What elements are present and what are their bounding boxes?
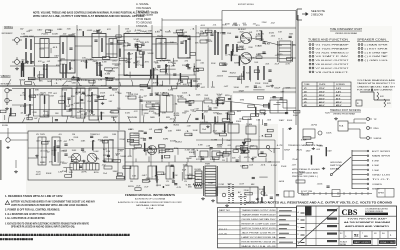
wire — [274, 140, 276, 207]
capacitor — [149, 137, 152, 138]
grid resistor R2 — [25, 52, 26, 63]
svg-text:12AX7: 12AX7 — [306, 149, 311, 152]
component value label — [68, 157, 75, 159]
legend line 7 — [136, 25, 148, 28]
resistor — [173, 172, 174, 178]
wire — [20, 79, 21, 86]
ground symbol — [201, 197, 205, 200]
svg-text:V7 6L6GC OUTPUT: V7 6L6GC OUTPUT — [316, 68, 350, 70]
svg-text:.001: .001 — [208, 157, 212, 159]
svg-text:2.2M: 2.2M — [117, 150, 123, 152]
component value label — [152, 176, 157, 178]
wire — [273, 104, 280, 106]
svg-text:500pF: 500pF — [137, 50, 143, 52]
pointer note line 2 — [311, 15, 324, 17]
wire — [47, 111, 49, 117]
svg-text:CABLE: CABLE — [301, 194, 310, 197]
AC receptacle box — [217, 187, 258, 203]
speaker end box — [377, 189, 394, 198]
osc resistor R42 — [104, 166, 112, 169]
component value label — [135, 30, 142, 32]
svg-text:440 V: 440 V — [319, 101, 325, 104]
resistor — [163, 186, 164, 188]
wire — [224, 101, 270, 106]
svg-text:V4 12AT7 P. INV.: V4 12AT7 P. INV. — [316, 55, 350, 58]
wire — [259, 176, 267, 178]
note 6 line 1 — [5, 221, 90, 225]
component value label — [135, 60, 140, 63]
svg-text:470: 470 — [70, 162, 74, 164]
wire — [168, 162, 170, 166]
resistor — [105, 68, 113, 71]
component value label — [217, 94, 224, 96]
resistor — [116, 35, 121, 38]
svg-text:A DIVISION OF COLUMBIA: A DIVISION OF COLUMBIA — [135, 198, 166, 201]
component value label — [242, 23, 246, 25]
capacitor — [149, 147, 152, 148]
component value label — [292, 159, 299, 161]
svg-text:7025: 7025 — [39, 48, 44, 50]
impedance label GND LUG — [372, 175, 391, 177]
svg-text:470: 470 — [234, 55, 238, 57]
svg-text:2.2M: 2.2M — [158, 43, 162, 45]
svg-text:SPKR: SPKR — [378, 193, 385, 195]
component value label — [133, 39, 140, 41]
component value label — [82, 162, 88, 164]
svg-text:.01: .01 — [169, 119, 174, 121]
resistor — [160, 69, 166, 72]
voltage table header — [304, 83, 345, 86]
component value label — [128, 186, 134, 188]
component value label — [173, 115, 180, 117]
svg-text:SCREEN: SCREEN — [336, 84, 345, 86]
svg-text:7025: 7025 — [36, 171, 41, 173]
svg-text:820: 820 — [175, 141, 181, 143]
svg-text:.02: .02 — [249, 165, 254, 167]
component value label — [36, 139, 40, 142]
label 25uF below bus — [75, 93, 81, 95]
component value label — [299, 172, 305, 174]
label R1 68K — [24, 36, 30, 38]
svg-text:230 V: 230 V — [319, 98, 325, 100]
wire — [162, 68, 175, 70]
component value label — [260, 165, 266, 167]
wire — [221, 138, 223, 144]
wire — [162, 81, 164, 86]
component value label — [118, 93, 122, 95]
resistor — [245, 192, 252, 195]
wire — [33, 88, 35, 116]
svg-text:470K: 470K — [90, 86, 96, 88]
wire — [173, 58, 175, 66]
label V2 row1 — [112, 68, 115, 70]
component value label — [244, 54, 250, 56]
svg-text:250K: 250K — [232, 158, 236, 160]
svg-text:MADE IN U.S.A. 45-09: MADE IN U.S.A. 45-09 — [242, 245, 277, 248]
wire — [187, 80, 188, 86]
wire — [258, 53, 267, 55]
capacitor — [107, 155, 110, 156]
tremolo jack tip — [367, 118, 378, 121]
title block frame — [297, 206, 397, 246]
resistor — [306, 142, 313, 145]
component value label — [115, 92, 120, 94]
svg-text:500pF: 500pF — [293, 115, 299, 117]
component value label — [174, 175, 178, 177]
tube V2A box — [156, 39, 166, 59]
label normal instrument — [2, 33, 14, 35]
component value label — [107, 29, 112, 31]
ground — [322, 167, 325, 170]
svg-text:40 V: 40 V — [336, 94, 341, 97]
svg-text:40V: 40V — [380, 96, 384, 98]
label 100K plate — [52, 34, 59, 36]
bias box 1 — [200, 122, 211, 133]
component value label — [86, 80, 90, 82]
svg-text:330K: 330K — [227, 184, 232, 186]
svg-text:.003: .003 — [94, 163, 98, 165]
component value label — [100, 113, 104, 115]
capacitor — [252, 177, 255, 178]
svg-text:NO: NO — [374, 233, 377, 235]
component value label — [195, 150, 199, 152]
component value label — [239, 76, 245, 78]
svg-text:T: T — [362, 233, 364, 235]
svg-text:455 V: 455 V — [336, 101, 342, 104]
wire — [177, 149, 179, 155]
component value label — [90, 141, 96, 143]
component value label — [73, 137, 79, 139]
component value label — [141, 110, 147, 112]
capacitor — [69, 109, 72, 110]
svg-text:2 BELOW: 2 BELOW — [311, 15, 324, 17]
parts table frame — [218, 208, 297, 248]
component value label — [172, 63, 176, 65]
svg-text:.003: .003 — [237, 42, 241, 44]
svg-text:100K: 100K — [93, 151, 99, 153]
wire — [37, 118, 40, 123]
label 1M row1 — [42, 62, 45, 64]
component value label — [237, 79, 244, 81]
svg-text:3.3M: 3.3M — [90, 115, 95, 117]
component value label — [185, 175, 189, 177]
component value label — [57, 29, 63, 31]
wire — [132, 149, 134, 167]
svg-text:2.2M: 2.2M — [206, 146, 210, 148]
component value label — [185, 149, 191, 151]
svg-text:LAMP 6V 51862 FUSE 2A: LAMP 6V 51862 FUSE 2A — [242, 236, 277, 239]
label 250K below bus — [100, 93, 106, 95]
component value label — [66, 111, 71, 113]
stage box V4B — [160, 95, 173, 112]
resistor — [150, 69, 151, 78]
component value label — [21, 34, 25, 36]
svg-text:2 OHM: 2 OHM — [372, 170, 379, 172]
label 1500 below bus — [62, 90, 67, 92]
tube chart subtitle — [335, 32, 357, 35]
svg-text:220K: 220K — [262, 22, 268, 24]
component value label — [277, 45, 282, 47]
resistor — [224, 123, 225, 134]
wire — [169, 73, 171, 85]
svg-text:.02: .02 — [30, 79, 34, 81]
svg-text:.001: .001 — [91, 95, 96, 97]
svg-text:.01: .01 — [52, 47, 58, 49]
svg-text:AMPLIFIER AND VIBRATO: AMPLIFIER AND VIBRATO — [345, 225, 389, 228]
capacitor C32 — [187, 101, 192, 105]
component value label — [56, 80, 63, 82]
component value label — [184, 111, 188, 113]
component value label — [87, 110, 93, 112]
resistor — [161, 155, 162, 159]
component value label — [125, 74, 129, 76]
svg-text:( ) EXT SPKR: ( ) EXT SPKR — [365, 48, 389, 50]
svg-text:PO-12: PO-12 — [219, 229, 228, 231]
component value label — [34, 118, 38, 120]
capacitor — [171, 165, 174, 166]
component value label — [183, 165, 189, 167]
svg-text:.005: .005 — [244, 54, 250, 56]
stage box V1C — [109, 39, 117, 58]
component value label — [233, 23, 237, 25]
component value label — [66, 81, 73, 83]
diode D2 — [240, 150, 248, 153]
capacitor — [55, 119, 58, 120]
svg-text:.047: .047 — [239, 183, 244, 185]
speaker row 3 — [358, 51, 388, 54]
svg-text:25: 25 — [70, 68, 73, 70]
component value label — [204, 111, 209, 113]
wire — [174, 95, 176, 123]
component value label — [155, 95, 160, 97]
resistor — [227, 113, 228, 120]
resistor — [65, 175, 72, 178]
wire — [62, 81, 66, 86]
component value label — [267, 162, 271, 164]
component value label — [39, 81, 44, 83]
svg-text:2.2M: 2.2M — [43, 115, 50, 117]
osc stage box 1 — [38, 137, 46, 165]
component value label — [33, 95, 39, 97]
svg-text:.005: .005 — [86, 30, 92, 32]
component value label — [155, 32, 161, 34]
svg-text:3.3M: 3.3M — [173, 115, 180, 117]
capacitor C31 — [138, 97, 143, 101]
component value label — [114, 65, 119, 67]
resistor — [196, 68, 203, 71]
capacitor — [96, 31, 99, 32]
svg-text:12AX7: 12AX7 — [245, 85, 249, 88]
resistor — [119, 48, 120, 57]
component value label — [240, 99, 245, 101]
svg-text:SYSTEMS DIVISION: SYSTEMS DIVISION — [365, 211, 384, 213]
svg-text:70: 70 — [166, 181, 169, 183]
svg-text:7025: 7025 — [325, 113, 330, 115]
legend line 6 — [136, 22, 152, 24]
svg-text:.1: .1 — [190, 28, 195, 30]
component value label — [120, 156, 128, 158]
component value label — [176, 130, 182, 132]
wire — [50, 79, 53, 86]
component value label — [317, 184, 323, 186]
component value label — [21, 58, 25, 61]
component value label — [39, 94, 45, 96]
wire — [135, 158, 137, 162]
capacitor — [81, 149, 84, 150]
svg-text:250K: 250K — [204, 95, 208, 97]
speaker run wire — [298, 190, 372, 197]
component value label — [135, 41, 140, 43]
component value label — [186, 184, 192, 186]
svg-text:250K: 250K — [66, 81, 73, 83]
svg-text:.01: .01 — [25, 115, 30, 117]
svg-text:TUBE COMPLEMENT CHART: TUBE COMPLEMENT CHART — [330, 28, 362, 31]
wire — [239, 155, 241, 162]
svg-text:220K: 220K — [192, 111, 197, 113]
svg-text:500pF: 500pF — [208, 182, 214, 184]
resistor — [116, 176, 124, 179]
wire — [76, 25, 78, 95]
component value label — [45, 141, 51, 143]
wire — [187, 158, 189, 162]
wire — [217, 116, 219, 123]
label 470K row1 — [168, 62, 174, 64]
component value label — [166, 95, 171, 97]
input jack J2 — [12, 57, 22, 64]
bottom row dark bar 2 — [379, 240, 396, 244]
svg-text:220K: 220K — [134, 94, 139, 96]
component value label — [192, 111, 197, 113]
svg-text:.1: .1 — [207, 106, 210, 108]
component value label — [239, 146, 245, 148]
component value label — [67, 28, 72, 30]
resistor — [113, 160, 121, 163]
component value label — [86, 30, 92, 32]
svg-text:SEE NOTE: SEE NOTE — [311, 11, 326, 13]
component value label — [202, 32, 208, 34]
component value label — [125, 33, 130, 35]
resistor — [214, 117, 215, 124]
svg-text:7025: 7025 — [217, 95, 221, 97]
wire — [7, 79, 11, 86]
svg-text:.005: .005 — [317, 184, 323, 186]
component value label — [115, 153, 121, 155]
capacitor — [210, 148, 213, 149]
component value label — [166, 149, 171, 151]
component value label — [94, 163, 98, 165]
wire — [117, 131, 119, 175]
wire — [276, 102, 287, 104]
capacitor — [77, 79, 80, 80]
component value label — [253, 157, 257, 159]
svg-text:.02: .02 — [152, 113, 156, 115]
component value label — [227, 184, 232, 186]
svg-text:220K: 220K — [259, 39, 265, 41]
svg-text:7025: 7025 — [125, 96, 131, 98]
svg-text:SWITCH TOGGLE DPST 41219: SWITCH TOGGLE DPST 41219 — [242, 228, 277, 230]
component value label — [318, 146, 323, 148]
resistor — [294, 110, 300, 113]
component value label — [248, 119, 254, 121]
resistor — [163, 93, 169, 96]
svg-text:1W: 1W — [62, 171, 67, 173]
component value label — [155, 114, 160, 116]
svg-text:220K: 220K — [41, 157, 48, 159]
wire — [141, 104, 143, 115]
voltage row V2 — [304, 91, 341, 94]
wire — [158, 117, 161, 122]
cathode resistor pair D — [96, 62, 100, 76]
svg-text:BASS: BASS — [112, 89, 118, 92]
capacitor — [201, 158, 204, 159]
component value label — [37, 29, 42, 32]
component value label — [255, 45, 261, 47]
wire — [71, 169, 73, 177]
svg-text:.01: .01 — [260, 165, 266, 167]
component value label — [252, 24, 256, 26]
component value label — [208, 157, 212, 159]
component value label — [134, 111, 139, 113]
component value label — [86, 59, 93, 61]
revision area rows — [297, 206, 340, 246]
note 4 — [5, 212, 55, 216]
component value label — [165, 185, 170, 187]
wire — [186, 100, 204, 102]
label 6L6GC upper — [238, 29, 247, 31]
wire — [106, 43, 124, 45]
svg-text:V6 6L6GC OUTPUT: V6 6L6GC OUTPUT — [316, 64, 350, 66]
wire — [66, 168, 68, 173]
component value label — [192, 80, 197, 82]
component value label — [244, 157, 250, 159]
wire — [195, 25, 197, 90]
resistor — [159, 106, 160, 116]
wire — [132, 80, 133, 86]
svg-text:820: 820 — [174, 125, 180, 127]
svg-text:12AX7: 12AX7 — [135, 60, 140, 63]
legend line 3 — [136, 11, 150, 14]
svg-text:.1: .1 — [172, 103, 178, 105]
component value label — [84, 113, 88, 115]
component value label — [43, 115, 50, 117]
component value label — [92, 61, 98, 63]
PI resistor R62 — [200, 40, 214, 43]
wire — [247, 120, 249, 162]
wire — [4, 115, 6, 120]
tube col header right — [357, 39, 389, 42]
wire — [20, 36, 200, 38]
trem note bottom — [301, 191, 312, 197]
bias diagram box — [356, 100, 362, 106]
svg-text:WITH 120V AC LINE, OUTPUT CONT: WITH 120V AC LINE, OUTPUT CONTROLS AT MI… — [33, 14, 145, 18]
power transformer T1 — [204, 164, 218, 197]
component value label — [86, 162, 90, 164]
fender line 2 — [135, 198, 166, 201]
svg-text:5W: 5W — [218, 100, 223, 102]
svg-text:.005: .005 — [183, 32, 187, 34]
label tone .047 — [126, 31, 148, 33]
label 7025 V3 — [40, 93, 47, 95]
component value label — [176, 187, 182, 189]
legend line 4 — [136, 15, 153, 17]
tremolo jack ring — [367, 127, 379, 130]
wire — [93, 79, 94, 86]
resistor — [178, 33, 183, 36]
component value label — [190, 28, 195, 30]
wire — [162, 19, 222, 21]
resistor — [190, 53, 196, 56]
component value label — [117, 150, 123, 152]
